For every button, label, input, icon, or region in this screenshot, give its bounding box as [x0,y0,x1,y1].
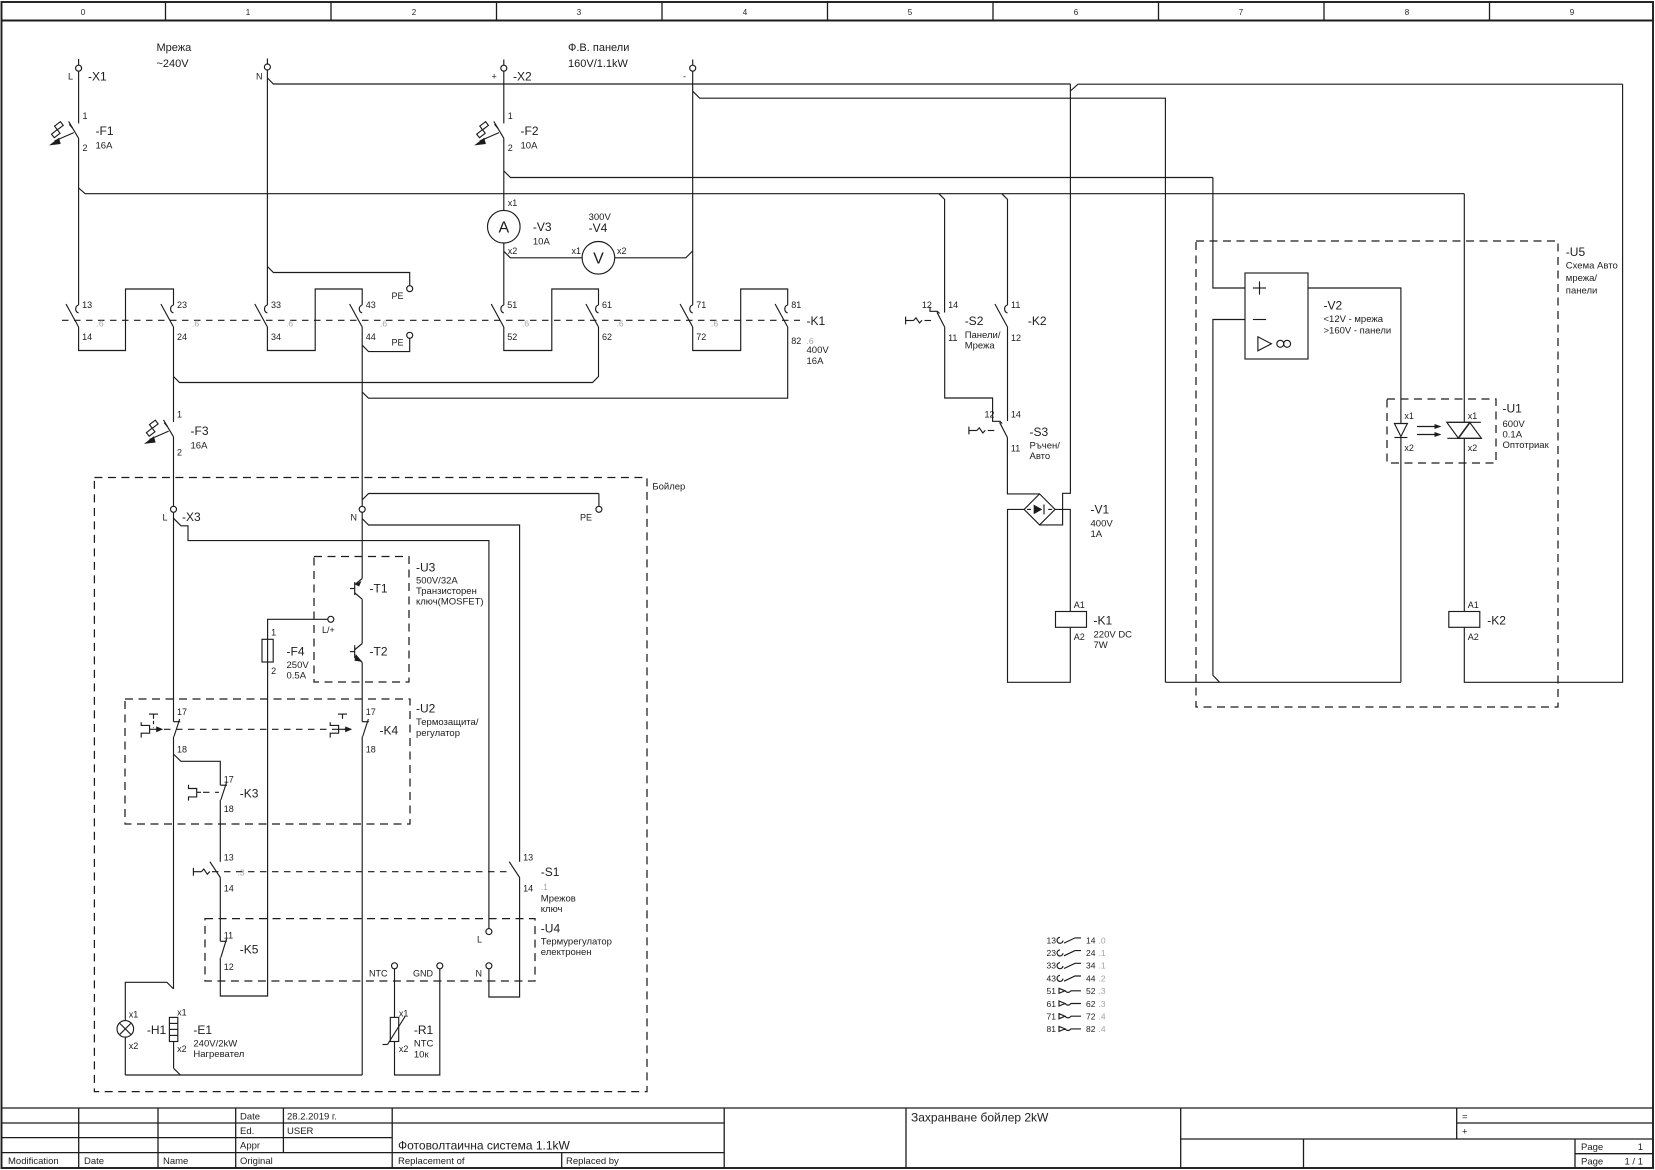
relay coil K1 220V DC 7W [1056,600,1133,651]
svg-text:52: 52 [1086,986,1096,996]
svg-text:12: 12 [922,300,932,310]
svg-text:600V: 600V [1503,419,1526,430]
svg-text:11: 11 [948,333,957,343]
wire X1 to F1 [78,71,80,123]
wire T2 emitter down to K4 contact [361,662,363,721]
svg-text:x2: x2 [617,246,627,256]
svg-text:82: 82 [1086,1024,1096,1034]
svg-text:6: 6 [1074,8,1079,17]
U5 dashed enclosure [1196,241,1618,707]
K3 actuator symbol [189,785,202,801]
U3 dashed box [314,557,484,683]
wire V1 DC+ to K1 coil A1 [1055,509,1070,611]
U2 linkage dashed line [164,728,356,730]
svg-text:2: 2 [271,666,276,676]
svg-text:-U4: -U4 [541,922,561,936]
svg-text:-K3: -K3 [240,787,259,801]
svg-text:.4: .4 [1099,1024,1106,1034]
wire X2+ to F2 [503,71,505,123]
K1 contact 23/24 [161,300,187,342]
svg-text:7: 7 [1239,8,1244,17]
svg-text:Мрежа: Мрежа [157,42,193,54]
S2 actuator symbol [906,317,922,325]
svg-text:панели: панели [1566,286,1598,297]
svg-text:Термозащита/: Термозащита/ [416,717,479,728]
svg-text:17: 17 [366,707,376,717]
svg-text:13: 13 [523,853,533,863]
svg-text:-V3: -V3 [533,220,552,234]
svg-text:L: L [477,935,482,945]
S1 pole A contact 13/14 [210,853,234,894]
svg-text:Фотоволтаична система 1.1kW: Фотоволтаична система 1.1kW [398,1139,571,1153]
wire S3 11 to V1 AC1 [1007,438,1039,494]
svg-text:x1: x1 [1404,411,1414,421]
svg-text:N: N [476,969,483,979]
wire X3-N down to T1 collector [361,512,363,578]
staple wire 14 to 23 [79,289,174,351]
wire V2 output to LED x1 [1308,288,1401,424]
fuse F4 250V 0.5A [262,628,309,682]
S3 changeover contact [984,410,1060,463]
svg-text:-F2: -F2 [521,124,539,138]
svg-text:-V4: -V4 [589,221,608,235]
K1 contact 43/44 [350,300,376,342]
svg-text:1: 1 [271,628,276,638]
transistor T2 [350,644,388,663]
svg-text:13: 13 [82,300,92,310]
wire X3-L branch to U4 L [174,518,489,928]
svg-text:Ф.В. панели: Ф.В. панели [568,42,629,54]
header text Мрежа ~240V [157,42,193,70]
svg-text:-H1: -H1 [147,1023,167,1037]
lamp H1 [117,1010,167,1052]
wire X3-N branch to S1 pole B [362,519,519,862]
wire K4 18 down to heater return [361,737,363,1076]
svg-text:Термурегулатор: Термурегулатор [541,937,612,948]
thermal NC contact in L path [174,707,188,755]
svg-text:61: 61 [602,300,612,310]
minus wire down to contact 71 [692,71,694,305]
wire L/+ to F4 [268,619,328,639]
svg-text:14: 14 [523,884,533,894]
staple wire 34 to 43 [267,289,362,351]
wire R1 x2 to GND terminal [395,969,440,1075]
terminal X3 L [163,506,202,524]
svg-text:x2: x2 [129,1041,139,1051]
svg-text:18: 18 [224,804,234,814]
optotriac output element [1447,411,1482,453]
U4 dashed box [205,919,612,981]
svg-text:x2: x2 [399,1044,409,1054]
svg-text:62: 62 [602,332,612,342]
svg-text:51: 51 [507,300,517,310]
svg-text:x2: x2 [508,246,518,256]
upper PE terminal [392,286,413,301]
wire X3-L down to thermal contact [173,512,175,721]
terminal U4 NTC [369,963,398,979]
svg-text:-F3: -F3 [191,424,209,438]
svg-text:.6: .6 [522,319,529,329]
svg-text:33: 33 [1047,961,1057,971]
wire E1 x2 to return [173,1042,175,1069]
breaker F1 16A [49,111,114,153]
svg-text:.6: .6 [617,319,624,329]
svg-text:-R1: -R1 [414,1023,434,1037]
wire ammeter down to contact 51 with branch to voltmeter [504,243,582,305]
svg-text:3: 3 [577,8,582,17]
svg-text:11: 11 [224,931,233,941]
svg-text:160V/1.1kW: 160V/1.1kW [568,58,629,70]
svg-text:16A: 16A [807,356,825,367]
svg-text:.1: .1 [1099,961,1106,971]
svg-text:5: 5 [908,8,913,17]
svg-text:51: 51 [1047,986,1057,996]
svg-text:500V/32A: 500V/32A [416,576,458,587]
svg-text:-X3: -X3 [182,510,201,524]
svg-text:x2: x2 [1468,443,1478,453]
svg-text:400V: 400V [807,345,830,356]
svg-text:10к: 10к [414,1050,430,1061]
svg-text:24: 24 [1086,948,1096,958]
S1 linkage dashed line [212,871,512,873]
svg-text:-E1: -E1 [193,1023,212,1037]
svg-text:71: 71 [696,300,706,310]
svg-text:x1: x1 [1468,411,1478,421]
svg-text:250V: 250V [287,660,310,671]
svg-text:Транзисторен: Транзисторен [416,586,477,597]
svg-text:1: 1 [177,410,182,420]
wire K2 A2 to N rail [1464,84,1622,682]
svg-text:-X2: -X2 [513,70,532,84]
svg-text:NTC: NTC [369,969,388,979]
K4 NC contact in T2 path [362,707,398,755]
svg-text:.0: .0 [1099,935,1106,945]
svg-text:ключ: ключ [541,904,563,915]
S3 actuator symbol [969,427,985,435]
svg-text:-U2: -U2 [416,702,436,716]
terminal X1 N [256,59,270,82]
svg-text:-F1: -F1 [96,124,114,138]
svg-text:2: 2 [412,8,417,17]
svg-text:L/+: L/+ [322,625,335,635]
svg-text:-K2: -K2 [1487,614,1506,628]
svg-text:400V: 400V [1091,519,1114,530]
terminal X3 N [351,506,366,522]
svg-text:-V2: -V2 [1324,299,1343,313]
terminal U4 L [477,929,492,945]
svg-text:.3: .3 [238,868,245,878]
svg-text:0.5A: 0.5A [287,671,307,682]
wire F4 down to K5 loop [220,662,267,996]
svg-text:-T2: -T2 [370,645,388,659]
svg-text:8: 8 [1405,8,1410,17]
wire S1A 14 to K5 [219,878,221,942]
breaker F2 10A [474,111,539,153]
svg-text:34: 34 [271,332,281,342]
svg-text:x2: x2 [177,1044,187,1054]
svg-text:N: N [256,72,263,82]
svg-text:13: 13 [1047,935,1057,945]
minus branch rail to right [693,91,1166,682]
rectifier V1 400V 1A [1024,494,1113,540]
title block [2,1108,1654,1168]
svg-text:PE: PE [392,338,404,348]
svg-text:PE: PE [392,291,404,301]
svg-text:Modification: Modification [8,1156,59,1167]
transistor T1 [350,579,388,600]
svg-text:Page: Page [1581,1157,1603,1168]
svg-text:Date: Date [84,1156,104,1167]
svg-text:-U1: -U1 [1503,402,1523,416]
wire NTC terminal to R1 [394,969,396,1018]
svg-text:18: 18 [177,745,187,755]
svg-text:Replaced by: Replaced by [566,1156,619,1167]
svg-text:52: 52 [507,332,517,342]
comparator V2 [1245,273,1391,359]
minus rail bottom horizontal to LED x2 [1165,681,1401,683]
svg-text:N: N [351,513,358,523]
S1 pole B contact 13/14 [509,853,576,916]
svg-text:<12V - мрежа: <12V - мрежа [1324,314,1384,325]
wire K2 12 down to S3 14 [1007,327,1009,421]
svg-text:34: 34 [1086,961,1096,971]
svg-text:82: 82 [791,336,801,346]
wire V1 DC- loop to K1 coil A2 [1008,509,1071,682]
svg-text:12: 12 [224,962,234,972]
svg-text:4: 4 [743,8,748,17]
svg-text:81: 81 [791,300,801,310]
N wire down to contact 33 [266,70,268,305]
svg-text:A1: A1 [1468,600,1479,610]
svg-text:0: 0 [81,8,86,17]
svg-text:x1: x1 [508,198,518,208]
cross reference mini contact glyphs [1057,937,1081,1031]
K1 contact 81/82 [775,300,801,346]
svg-text:Original: Original [240,1156,273,1167]
svg-text:.6: .6 [97,319,104,329]
svg-text:16A: 16A [191,441,209,452]
svg-text:x2: x2 [1404,443,1414,453]
svg-text:23: 23 [177,300,187,310]
svg-text:72: 72 [1086,1012,1096,1022]
K1 contact linkage dashed line [62,319,800,321]
ruler band [2,2,1654,21]
optocoupler LED [1394,411,1414,453]
svg-text:-K5: -K5 [240,943,259,957]
svg-text:PE: PE [580,513,592,523]
K1 contact row label [807,314,830,367]
terminal X2 minus [683,60,696,82]
wire K3 18 down to S1 pole A [219,800,221,862]
svg-text:Date: Date [240,1112,260,1123]
svg-text:Нагревател: Нагревател [193,1049,244,1060]
N branch to upper PE terminal [267,267,409,286]
lower PE terminal [392,332,413,347]
relay coil K2 [1449,600,1507,642]
heater return wire to T2 path [125,1068,362,1075]
wire F3 to X3 L [173,437,175,507]
svg-text:43: 43 [1047,973,1057,983]
wire F1 down to contact 13 with branch to right rail [79,138,1465,305]
svg-text:A2: A2 [1074,632,1085,642]
wire H1 x2 down to return [124,1037,126,1076]
U1 dashed box [1387,399,1550,463]
svg-text:мрежа/: мрежа/ [1566,273,1598,284]
thermistor R1 NTC 10k [383,1009,434,1061]
wire triac x2 to K2 coil A1 [1463,438,1465,611]
boiler dashed enclosure [94,478,685,1092]
svg-text:Бойлер: Бойлер [652,482,685,493]
svg-text:.6: .6 [286,319,293,329]
svg-text:.4: .4 [1099,1012,1106,1022]
svg-text:NTC: NTC [414,1039,434,1050]
svg-text:33: 33 [271,300,281,310]
svg-text:.3: .3 [1099,986,1106,996]
wire F2 rail drop to V2 plus input [1213,178,1245,289]
svg-text:-K1: -K1 [1094,614,1113,628]
svg-text:7W: 7W [1094,640,1108,651]
staple wire 52 to 61 [504,289,599,351]
svg-text:USER: USER [287,1126,314,1137]
U2 dashed box [125,699,479,824]
svg-text:x1: x1 [129,1010,139,1020]
thermal release right symbol [330,714,352,738]
terminal U4 GND [413,963,443,979]
terminal U4 N [476,963,492,979]
S2 changeover contact [922,300,1001,352]
svg-text:28.2.2019 г.: 28.2.2019 г. [287,1112,337,1123]
svg-text:43: 43 [366,300,376,310]
svg-text:-U3: -U3 [416,561,436,575]
K1 contact cross reference list [1047,935,1106,1034]
K1 contact 33/34 [255,300,281,342]
svg-text:-S3: -S3 [1030,425,1049,439]
svg-text:=: = [1462,1112,1468,1123]
svg-text:~240V: ~240V [157,58,190,70]
svg-text:x1: x1 [177,1008,187,1018]
svg-text:.1: .1 [541,882,548,892]
svg-text:11: 11 [1011,444,1020,454]
svg-text:-K1: -K1 [807,314,826,328]
header text Ф.В. панели 160V/1.1kW [568,42,629,70]
K3 linkage dashes [203,791,219,793]
wire 24 down to F3 with junction from 62 return [173,327,175,422]
svg-text:Мрежов: Мрежов [541,894,576,905]
wire LED x2 down to minus return [1400,438,1402,683]
terminal X1 L [68,59,107,84]
svg-text:Ръчен/: Ръчен/ [1030,441,1061,452]
svg-text:1 / 1: 1 / 1 [1625,1157,1644,1168]
svg-text:62: 62 [1086,999,1096,1009]
svg-text:14: 14 [1086,935,1096,945]
svg-text:11: 11 [1011,300,1020,310]
svg-text:240V/2kW: 240V/2kW [193,1039,237,1050]
return wire from 62 to 24 drop [174,327,599,383]
svg-text:14: 14 [1011,410,1021,420]
svg-text:.1: .1 [1099,948,1106,958]
svg-text:Оптотриак: Оптотриак [1503,440,1550,451]
svg-text:Name: Name [163,1156,188,1167]
svg-text:+: + [492,72,497,82]
svg-text:-F4: -F4 [287,645,305,659]
svg-text:-K4: -K4 [380,724,399,738]
svg-text:1: 1 [246,8,251,17]
svg-text:A: A [498,220,509,237]
svg-text:24: 24 [177,332,187,342]
wire F2 down to ammeter with branch to V2 [504,138,1213,210]
terminal L/+ [322,616,335,635]
K1 relay contact 11/12 of K2 [995,300,1047,343]
svg-text:Захранване бойлер 2kW: Захранване бойлер 2kW [911,1111,1049,1125]
breaker F3 16A [144,410,209,458]
svg-text:23: 23 [1047,948,1057,958]
svg-text:71: 71 [1047,1012,1057,1022]
svg-text:9: 9 [1570,8,1575,17]
K1 contact 13/14 [66,300,92,342]
svg-text:x1: x1 [399,1009,409,1019]
svg-text:-T1: -T1 [370,582,388,596]
svg-text:-U5: -U5 [1566,245,1586,259]
svg-text:14: 14 [948,300,958,310]
terminal X2 plus [492,60,533,84]
svg-text:+: + [1462,1127,1468,1138]
svg-text:44: 44 [1086,973,1096,983]
svg-text:10A: 10A [521,141,539,152]
K1 contact 71/72 [680,300,706,342]
wire thermal 18 to K3 and E1 branch [174,737,221,989]
svg-text:Replacement of: Replacement of [398,1156,465,1167]
svg-text:Page: Page [1581,1142,1603,1153]
terminal X3 PE [580,494,602,523]
svg-text:18: 18 [366,745,376,755]
svg-text:1: 1 [1638,1142,1643,1153]
wire voltmeter to minus rail [615,251,693,258]
svg-text:17: 17 [224,775,234,785]
svg-text:1: 1 [83,111,88,121]
wire S2 11 to S3 12 [945,327,993,417]
K1 contact 61/62 [586,300,612,342]
heater E1 240V/2kW [169,1008,244,1061]
svg-text:12: 12 [1011,333,1021,343]
svg-text:Схема Авто: Схема Авто [1566,261,1618,272]
svg-text:14: 14 [82,332,92,342]
svg-text:V: V [593,251,604,268]
K1 contact 51/52 [491,300,517,342]
svg-text:.6: .6 [192,319,199,329]
svg-text:0.1A: 0.1A [1503,430,1523,441]
svg-text:-K2: -K2 [1028,314,1047,328]
svg-text:13: 13 [224,853,234,863]
N branch top rail to far right [267,78,1622,91]
svg-text:1: 1 [508,111,513,121]
K3 NC contact [220,775,258,815]
N drop from top rail to V1 AC2 [1040,84,1071,525]
svg-text:2: 2 [508,143,513,153]
svg-text:Авто: Авто [1030,451,1051,462]
svg-text:17: 17 [177,707,187,717]
svg-text:.6: .6 [380,319,387,329]
svg-text:L: L [163,513,168,523]
svg-text:електронен: електронен [541,947,592,958]
svg-text:A1: A1 [1074,600,1085,610]
svg-text:-S2: -S2 [965,314,984,328]
svg-text:GND: GND [413,969,434,979]
svg-text:ключ(MOSFET): ключ(MOSFET) [416,597,484,608]
svg-text:>160V - панели: >160V - панели [1324,326,1392,337]
wire S1B 14 to U4 N [489,878,520,998]
svg-text:-: - [683,72,686,82]
svg-text:Мрежа: Мрежа [965,341,996,352]
